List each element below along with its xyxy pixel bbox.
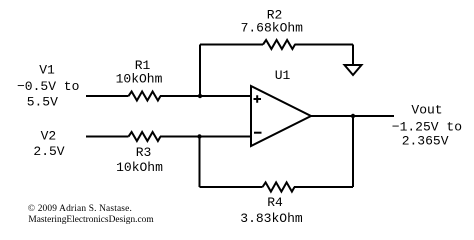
- node B junction dot: [197, 134, 201, 138]
- resistor R1: [129, 92, 161, 101]
- wire output: [311, 115, 394, 117]
- svg-text:7.68kOhm: 7.68kOhm: [241, 20, 304, 35]
- resistor R2: [263, 40, 295, 49]
- wire node B down to R4: [199, 137, 201, 188]
- svg-text:Vout: Vout: [411, 103, 442, 118]
- wire R2 top horizontal: [200, 44, 353, 46]
- wire R2 to ground: [352, 45, 354, 66]
- ground: [345, 65, 362, 75]
- svg-text:R3: R3: [136, 145, 152, 160]
- wire V1 input to + input: [86, 95, 251, 97]
- svg-text:−0.5V to: −0.5V to: [17, 79, 79, 94]
- svg-text:5.5V: 5.5V: [27, 95, 58, 110]
- svg-text:R4: R4: [267, 195, 283, 210]
- op-amp U1: [251, 86, 311, 146]
- output node junction dot: [351, 114, 355, 118]
- svg-text:2.5V: 2.5V: [33, 144, 64, 159]
- svg-text:U1: U1: [275, 68, 291, 83]
- svg-text:© 2009 Adrian S. Nastase.: © 2009 Adrian S. Nastase.: [28, 203, 132, 214]
- svg-text:3.83kOhm: 3.83kOhm: [240, 211, 303, 226]
- resistor R3: [129, 132, 161, 141]
- svg-text:2.365V: 2.365V: [402, 133, 449, 148]
- svg-text:MasteringElectronicsDesign.com: MasteringElectronicsDesign.com: [28, 215, 154, 225]
- wire R4 up to output node: [352, 116, 354, 187]
- node A junction dot: [198, 94, 202, 98]
- wire V2 input to - input: [86, 136, 251, 138]
- svg-text:−1.25V to: −1.25V to: [392, 120, 462, 135]
- svg-text:V1: V1: [39, 62, 55, 77]
- resistor R4: [263, 182, 295, 191]
- wire node A up to R2: [199, 45, 201, 97]
- op-amp minus pin mark: [254, 132, 262, 134]
- svg-text:V2: V2: [41, 129, 57, 144]
- wire R4 bottom horizontal: [200, 186, 354, 188]
- svg-text:10kOhm: 10kOhm: [116, 160, 163, 175]
- op-amp plus pin mark: [254, 95, 262, 103]
- svg-text:10kOhm: 10kOhm: [116, 72, 163, 87]
